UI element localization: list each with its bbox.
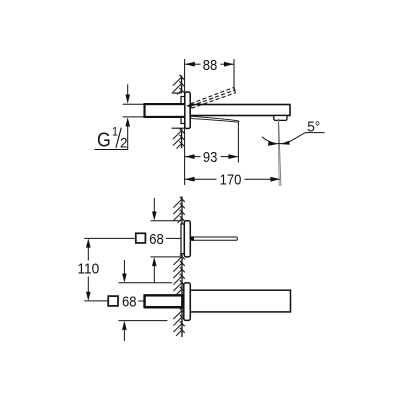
lever rod joint: [191, 236, 194, 240]
pipe edge ext line top: [123, 103, 144, 105]
dimension 110 top ext line: [84, 237, 136, 239]
wall line bottom view segment 3: [181, 308, 183, 337]
dimension 93 line: [185, 156, 201, 158]
handle 68 bottom arrow: [152, 257, 157, 266]
svg-text:68: 68: [149, 231, 164, 248]
hatch cap line lower: [172, 127, 185, 129]
svg-text:68: 68: [122, 294, 137, 311]
spout 68 leader to body: [138, 300, 143, 302]
svg-text:88: 88: [203, 57, 218, 74]
aerator at spout tip: [274, 116, 287, 121]
lever pivot solid tip: [186, 104, 191, 109]
spout 68 bottom arrow: [122, 321, 127, 330]
handle 68 ext line bottom: [151, 256, 182, 258]
spout 68 ext line top: [119, 282, 173, 284]
spout 68 ext line bottom: [119, 320, 168, 322]
dimension 110 top arrow: [86, 238, 91, 247]
spout escutcheon bottom view: [184, 283, 191, 321]
dimension 93 left arrow: [185, 154, 195, 159]
5 degree leader: [290, 133, 324, 142]
spout pipe bottom view: [145, 294, 184, 308]
pipe/wall junction bar: [181, 294, 184, 308]
handle lever rod: [191, 237, 238, 240]
spout body top view: [190, 105, 290, 116]
dimension 93 right arrow: [228, 154, 238, 159]
wall line top view lower segment: [181, 128, 183, 148]
pipe edge ext line bottom: [123, 116, 144, 118]
5 degree arc left arrow: [268, 142, 277, 146]
dimension 170 right arrow: [270, 177, 280, 182]
dimension 170 line: [185, 178, 217, 180]
handle 68 top arrow: [153, 198, 155, 212]
handle square symbol: [136, 233, 146, 243]
flange top view: [181, 97, 185, 124]
dimension ext line lever tip x=234: [233, 59, 235, 90]
svg-text:5°: 5°: [307, 118, 320, 135]
5 degree arc: [262, 137, 290, 144]
wall line bottom view segment 2: [181, 254, 183, 295]
hatch cap lines bottom view: [174, 294, 184, 296]
svg-text:93: 93: [203, 149, 218, 166]
dimension 110 bottom arrow: [86, 292, 91, 301]
G1/2 down arrow: [127, 84, 129, 95]
wall hatching top view band B: [173, 128, 184, 148]
pipe inlet top view: [0, 0, 1, 1]
svg-text:G: G: [97, 129, 111, 151]
wall hatching top view band A: [173, 75, 184, 95]
dimension 110 bottom ext line: [84, 300, 108, 302]
spout body bottom view: [190, 290, 290, 312]
handle 68 ext line top: [151, 220, 182, 222]
spout square symbol: [108, 296, 118, 306]
escutcheon top view: [185, 92, 190, 129]
G1/2 underline leader: [95, 149, 129, 151]
hatch cap line upper: [172, 92, 182, 94]
dimension 88 line: [185, 63, 201, 65]
lever dashed end cap: [234, 87, 235, 92]
svg-text:170: 170: [220, 172, 242, 189]
dimension 88 left arrow: [185, 62, 195, 67]
5 degree reference line (water stream): [279, 119, 281, 187]
handle 68 leader to plate: [166, 237, 181, 239]
wall hatching bottom view band 1: [173, 197, 184, 223]
svg-text:110: 110: [77, 261, 99, 278]
wall hatching bottom view band 2: [173, 254, 184, 294]
spout 68 top arrow: [123, 260, 125, 274]
svg-text:1: 1: [112, 125, 118, 139]
spout underside lip wedge: [191, 116, 239, 122]
dimension ext line wall face x=184.6: [184, 59, 186, 185]
dimension 170 left arrow: [185, 177, 195, 182]
wall line top view upper segment: [181, 76, 183, 94]
5 degree arc right arrow: [281, 141, 290, 145]
svg-text:2: 2: [120, 136, 128, 151]
pipe inlet top view: [145, 103, 185, 118]
wall hatching bottom view band 3: [173, 308, 184, 336]
dimension 88 right arrow: [224, 62, 234, 67]
handle flange bottom view: [181, 224, 184, 254]
lever handle dashed (rotated position): [191, 87, 236, 108]
wall line bottom view segment 1: [181, 197, 183, 225]
G1/2 up arrow: [125, 117, 130, 126]
handle escutcheon bottom view: [184, 221, 190, 257]
dimension 110 line: [87, 247, 89, 261]
dimension ext line spout lip x=238.4: [237, 121, 239, 163]
